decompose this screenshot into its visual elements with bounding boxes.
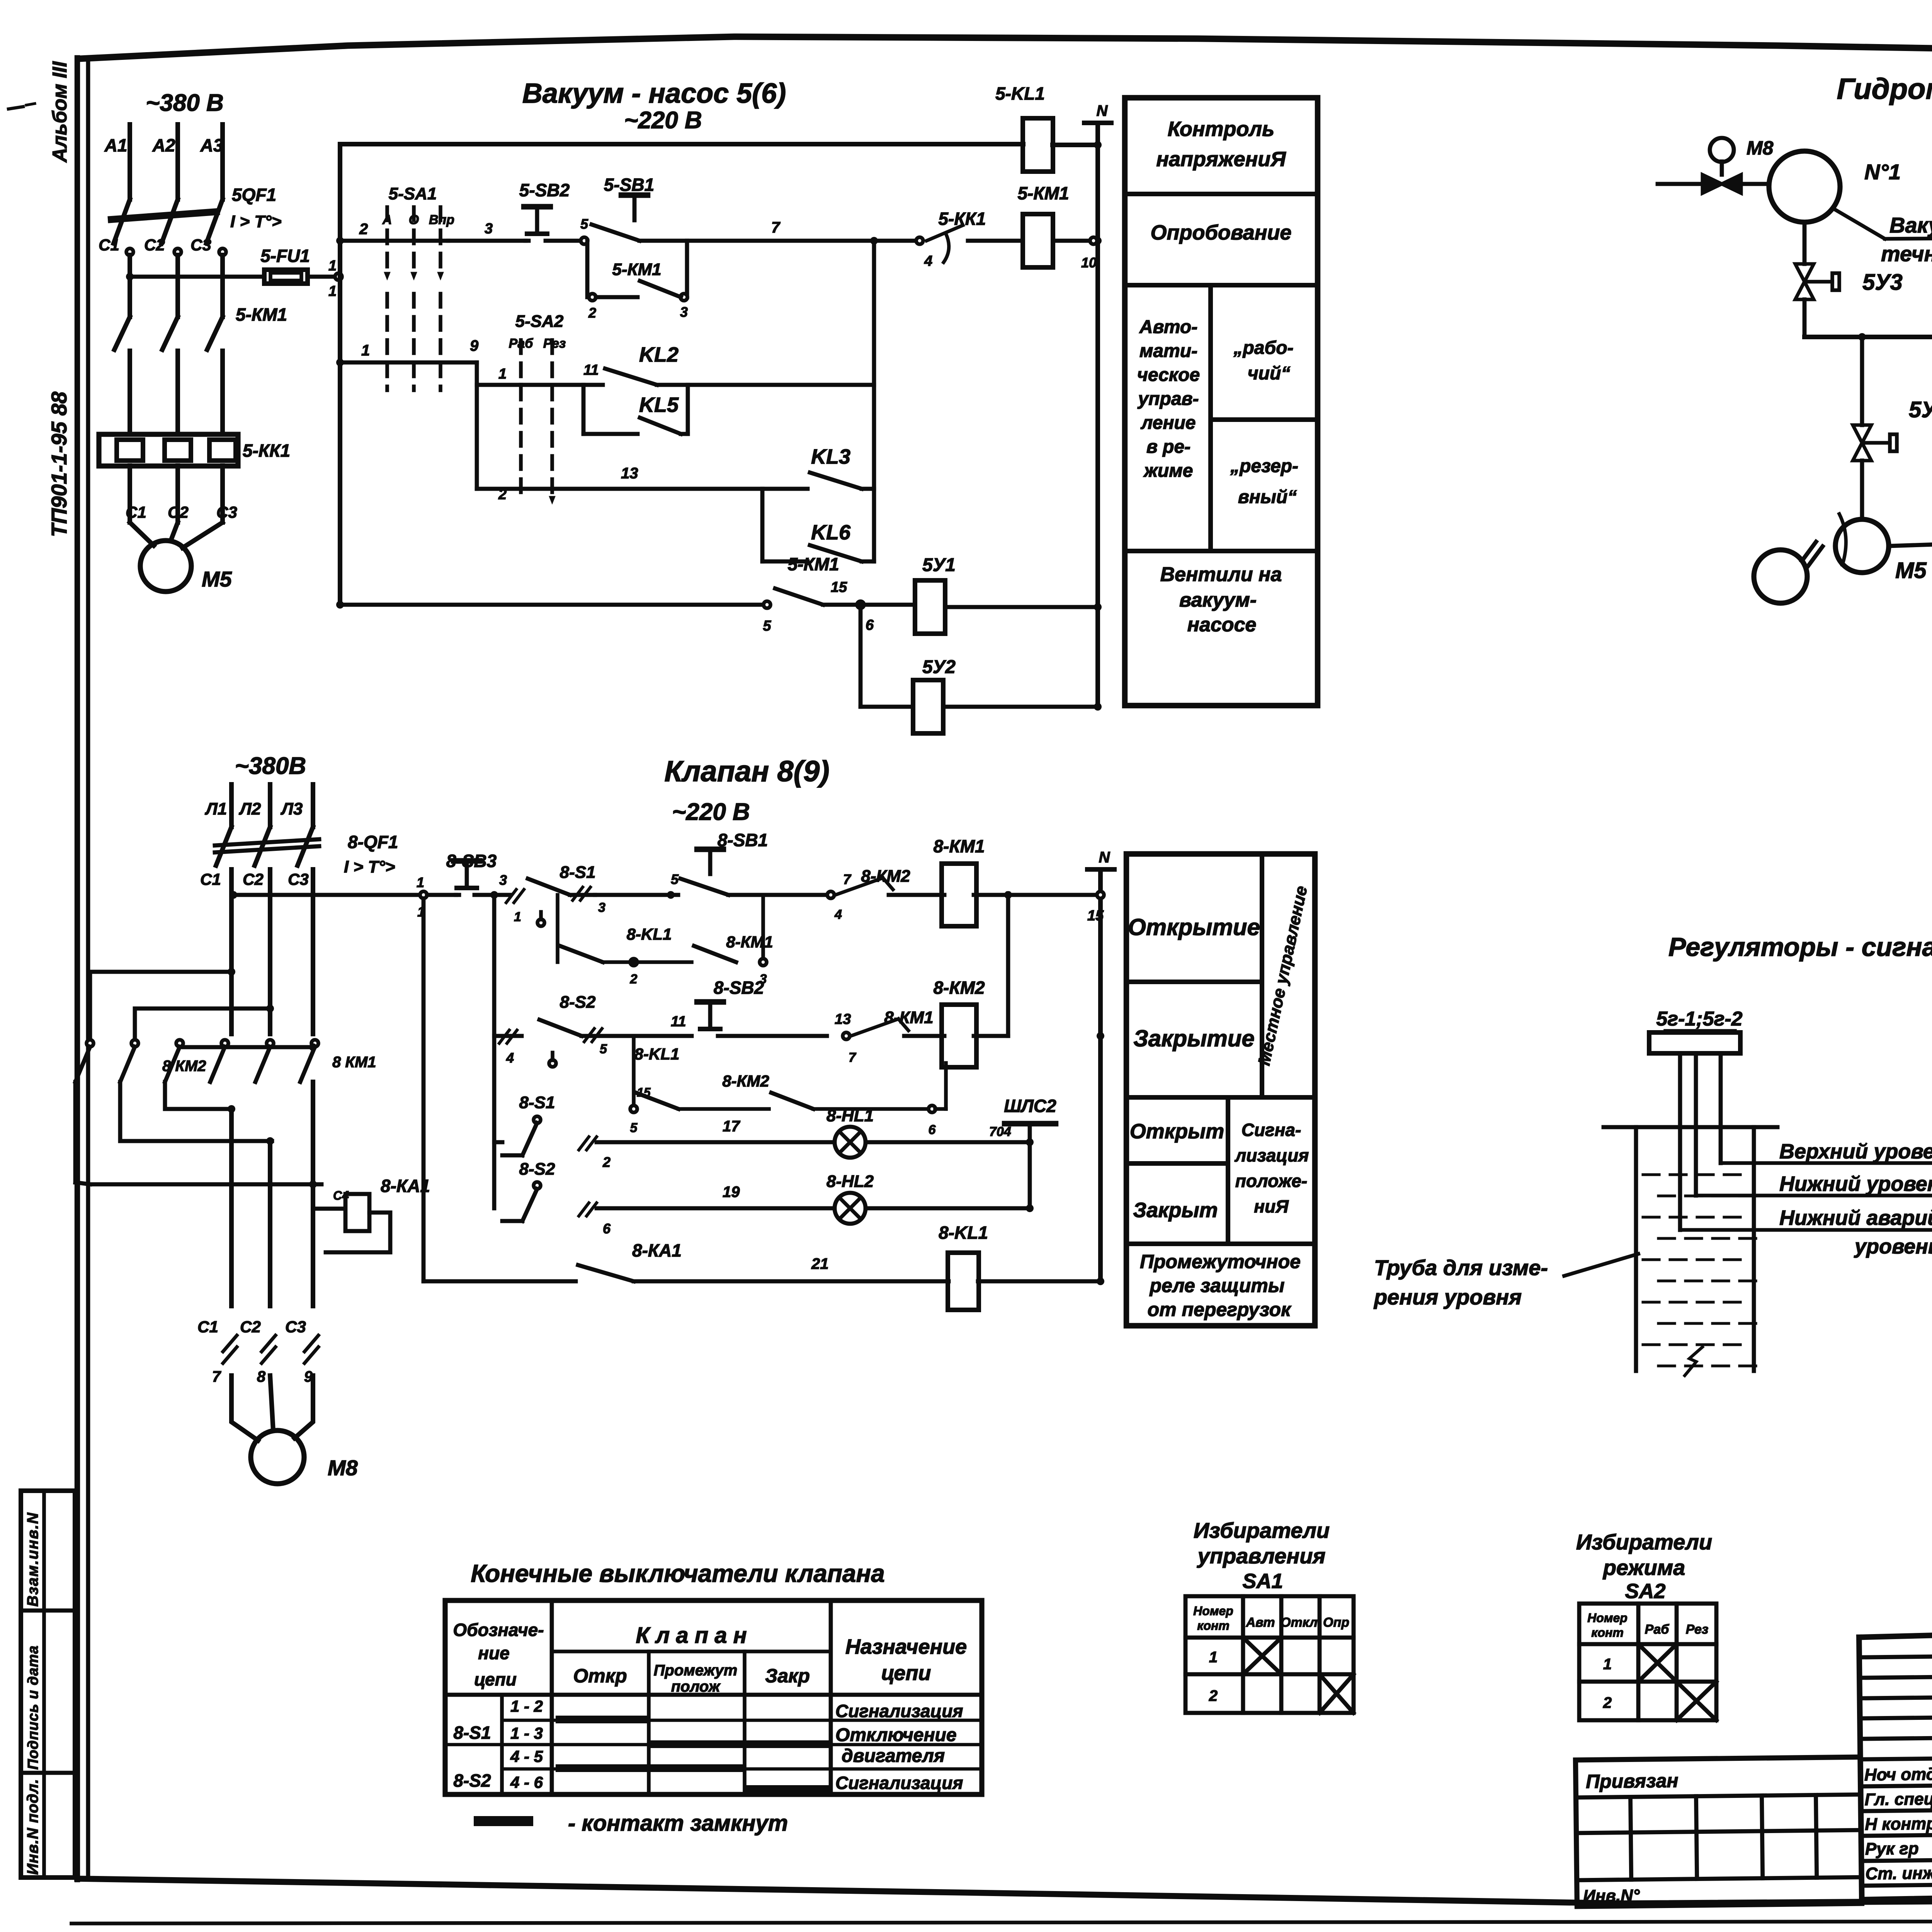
svg-text:О: О: [409, 213, 419, 227]
svg-text:4: 4: [834, 907, 842, 922]
svg-text:Номер: Номер: [1587, 1611, 1628, 1625]
svg-text:Взам.инв.N: Взам.инв.N: [24, 1512, 41, 1607]
svg-text:2: 2: [588, 305, 596, 321]
svg-text:К л а п а н: К л а п а н: [636, 1623, 747, 1648]
svg-text:1: 1: [328, 283, 337, 299]
svg-text:двигателя: двигателя: [842, 1746, 945, 1766]
svg-text:2: 2: [498, 486, 507, 503]
svg-text:C3: C3: [190, 236, 211, 254]
svg-text:ниЯ: ниЯ: [1254, 1196, 1289, 1216]
svg-text:течно сифонных линий: течно сифонных линий: [1881, 241, 1932, 266]
svg-text:5-КМ1: 5-КМ1: [1017, 183, 1069, 203]
svg-text:19: 19: [723, 1184, 740, 1201]
svg-text:М5: М5: [202, 567, 232, 591]
svg-text:8-КА1: 8-КА1: [632, 1240, 682, 1260]
svg-text:5У2: 5У2: [1909, 397, 1932, 422]
svg-text:C2: C2: [144, 236, 165, 254]
svg-text:реле защиты: реле защиты: [1149, 1275, 1285, 1296]
svg-text:704: 704: [989, 1124, 1011, 1139]
svg-text:7: 7: [849, 1050, 857, 1065]
svg-text:Рук гр: Рук гр: [1865, 1839, 1919, 1859]
svg-text:5QF1: 5QF1: [232, 185, 276, 205]
svg-text:8-KL1: 8-KL1: [634, 1045, 680, 1063]
svg-text:чий“: чий“: [1248, 363, 1291, 384]
svg-text:KL3: KL3: [811, 445, 850, 468]
svg-text:Закрыт: Закрыт: [1133, 1199, 1218, 1222]
svg-text:13: 13: [621, 465, 638, 482]
svg-text:~220 В: ~220 В: [672, 799, 750, 825]
svg-text:Нижний уровень: Нижний уровень: [1779, 1172, 1932, 1196]
svg-text:Раб: Раб: [509, 336, 534, 351]
svg-text:А3: А3: [200, 135, 223, 155]
svg-text:15: 15: [637, 1085, 651, 1099]
svg-text:8-S1: 8-S1: [453, 1723, 491, 1743]
svg-text:Откр: Откр: [573, 1665, 627, 1687]
svg-text:8-HL2: 8-HL2: [827, 1172, 874, 1191]
svg-text:11: 11: [671, 1014, 686, 1030]
svg-text:4: 4: [924, 253, 932, 269]
svg-text:Л1: Л1: [205, 799, 227, 818]
svg-text:8-HL1: 8-HL1: [827, 1106, 874, 1125]
svg-text:5-КК1: 5-КК1: [938, 209, 986, 229]
svg-text:10: 10: [1081, 255, 1097, 270]
svg-text:Гл. спец: Гл. спец: [1864, 1789, 1932, 1809]
svg-text:2: 2: [630, 972, 638, 986]
svg-text:полож: полож: [671, 1678, 721, 1695]
svg-text:лизация: лизация: [1235, 1145, 1309, 1165]
svg-text:5У3: 5У3: [1862, 270, 1903, 295]
svg-text:C2: C2: [240, 1318, 261, 1336]
svg-text:насосе: насосе: [1187, 614, 1257, 636]
svg-text:в ре-: в ре-: [1146, 437, 1190, 457]
svg-text:Открытие: Открытие: [1128, 914, 1260, 940]
svg-text:М8: М8: [328, 1456, 358, 1480]
svg-text:11: 11: [583, 362, 599, 378]
svg-text:Верхний уровень: Верхний уровень: [1779, 1140, 1932, 1163]
svg-text:Альбом III: Альбом III: [49, 61, 71, 163]
svg-text:ческое: ческое: [1137, 365, 1200, 385]
svg-text:конт: конт: [1197, 1619, 1230, 1633]
svg-text:ление: ление: [1141, 413, 1196, 433]
svg-text:5-SB1: 5-SB1: [604, 175, 654, 195]
svg-text:Откл: Откл: [1281, 1615, 1318, 1630]
svg-text:3: 3: [598, 900, 605, 915]
svg-text:5-SA1: 5-SA1: [389, 184, 437, 203]
svg-text:Отключение: Отключение: [835, 1725, 957, 1745]
svg-text:8-КМ2: 8-КМ2: [861, 867, 910, 886]
svg-text:Промежуточное: Промежуточное: [1140, 1251, 1301, 1272]
svg-text:„рабо-: „рабо-: [1233, 338, 1293, 358]
svg-text:Ст. инж: Ст. инж: [1865, 1864, 1932, 1883]
svg-text:~380В: ~380В: [235, 753, 306, 779]
svg-text:А1: А1: [104, 135, 128, 155]
svg-text:5: 5: [671, 871, 679, 887]
svg-text:Избиратели: Избиратели: [1194, 1518, 1330, 1543]
svg-text:цепи: цепи: [474, 1669, 517, 1689]
svg-text:8: 8: [257, 1368, 266, 1385]
svg-text:М5: М5: [1895, 558, 1927, 583]
svg-text:ние: ние: [478, 1643, 509, 1663]
svg-text:Рез: Рез: [543, 336, 566, 351]
svg-text:8 КМ1: 8 КМ1: [332, 1054, 376, 1071]
svg-text:Сигнализация: Сигнализация: [835, 1701, 963, 1721]
svg-text:Труба для изме-: Труба для изме-: [1374, 1255, 1548, 1280]
svg-text:5: 5: [600, 1042, 607, 1056]
svg-text:Авт: Авт: [1246, 1615, 1275, 1630]
svg-text:5: 5: [763, 618, 771, 634]
svg-text:Раб: Раб: [1645, 1622, 1670, 1637]
svg-text:Л3: Л3: [281, 799, 303, 818]
svg-text:9: 9: [470, 337, 479, 354]
svg-text:ШЛС2: ШЛС2: [1004, 1096, 1056, 1116]
svg-text:17: 17: [723, 1118, 740, 1135]
svg-text:1 - 2: 1 - 2: [510, 1697, 543, 1715]
svg-text:Опр: Опр: [1323, 1615, 1349, 1630]
svg-text:~220 В: ~220 В: [624, 107, 702, 134]
svg-text:C3: C3: [285, 1318, 306, 1336]
svg-text:8-S2: 8-S2: [519, 1160, 555, 1179]
svg-text:15: 15: [831, 579, 847, 595]
svg-text:8 КМ2: 8 КМ2: [162, 1058, 206, 1075]
svg-text:~380 В: ~380 В: [146, 90, 224, 116]
svg-text:Закрытие: Закрытие: [1133, 1026, 1255, 1051]
svg-text:3: 3: [680, 304, 688, 320]
svg-text:21: 21: [811, 1255, 829, 1272]
svg-text:Избиратели: Избиратели: [1576, 1530, 1712, 1554]
svg-text:5г-1;5г-2: 5г-1;5г-2: [1656, 1008, 1742, 1030]
svg-text:Обозначе-: Обозначе-: [453, 1620, 544, 1640]
svg-text:Инв.N°: Инв.N°: [1583, 1886, 1640, 1906]
svg-text:Назначение: Назначение: [845, 1635, 967, 1658]
svg-text:1: 1: [1209, 1649, 1218, 1666]
svg-text:Вакуум - насос 5(6): Вакуум - насос 5(6): [522, 78, 786, 109]
svg-text:управления: управления: [1197, 1544, 1326, 1568]
svg-text:C2: C2: [243, 870, 264, 888]
svg-text:Подпись и дата: Подпись и дата: [25, 1645, 41, 1770]
svg-text:SA1: SA1: [1242, 1570, 1283, 1593]
svg-text:5У2: 5У2: [922, 657, 956, 677]
svg-text:8-КМ1: 8-КМ1: [884, 1008, 933, 1027]
svg-text:N: N: [1097, 102, 1108, 119]
svg-text:1: 1: [1603, 1656, 1612, 1673]
svg-text:SA2: SA2: [1625, 1580, 1665, 1603]
svg-text:Контроль: Контроль: [1168, 117, 1274, 141]
svg-text:мати-: мати-: [1139, 341, 1197, 361]
svg-text:13: 13: [835, 1011, 851, 1027]
svg-text:2: 2: [1603, 1694, 1612, 1711]
svg-text:4 - 6: 4 - 6: [510, 1773, 543, 1791]
svg-text:Клапан 8(9): Клапан 8(9): [664, 755, 829, 788]
svg-text:Закр: Закр: [765, 1665, 810, 1687]
svg-text:I > T°>: I > T°>: [344, 857, 395, 876]
svg-text:жиме: жиме: [1143, 461, 1193, 481]
svg-text:6: 6: [603, 1221, 611, 1236]
svg-text:C4: C4: [333, 1189, 349, 1202]
svg-text:напряжениЯ: напряжениЯ: [1156, 148, 1286, 171]
svg-text:Рез: Рез: [1686, 1622, 1709, 1637]
svg-text:Привязан: Привязан: [1586, 1770, 1679, 1793]
svg-text:1 - 3: 1 - 3: [510, 1724, 543, 1742]
svg-text:„резер-: „резер-: [1230, 456, 1298, 476]
svg-text:8-КМ1: 8-КМ1: [726, 933, 773, 951]
svg-text:Вентили на: Вентили на: [1160, 563, 1282, 586]
svg-text:Ноч отд: Ноч отд: [1864, 1765, 1932, 1784]
svg-text:2: 2: [602, 1154, 611, 1170]
svg-text:8-КМ1: 8-КМ1: [933, 836, 985, 856]
svg-text:уровень: уровень: [1854, 1235, 1932, 1258]
svg-text:C1: C1: [200, 870, 221, 888]
svg-text:ТП901-1-95 88: ТП901-1-95 88: [47, 391, 71, 537]
svg-text:N: N: [1099, 849, 1111, 866]
svg-text:8-КМ2: 8-КМ2: [933, 978, 985, 998]
svg-text:5У1: 5У1: [922, 555, 956, 575]
svg-text:Впр: Впр: [429, 213, 454, 227]
svg-text:8-S2: 8-S2: [453, 1770, 491, 1791]
svg-text:8-KL1: 8-KL1: [627, 925, 672, 943]
svg-text:5-КМ1: 5-КМ1: [236, 304, 287, 325]
svg-text:конт: конт: [1591, 1626, 1624, 1639]
svg-text:Инв.N подл.: Инв.N подл.: [24, 1779, 41, 1875]
svg-text:5-КМ1: 5-КМ1: [787, 554, 839, 574]
svg-text:Авто-: Авто-: [1139, 317, 1197, 337]
svg-text:Сигна-: Сигна-: [1242, 1120, 1301, 1140]
svg-text:3: 3: [485, 221, 493, 237]
svg-text:5-KL1: 5-KL1: [995, 83, 1045, 104]
svg-text:от перегрузок: от перегрузок: [1148, 1299, 1292, 1320]
svg-text:1: 1: [417, 874, 424, 890]
svg-text:режима: режима: [1602, 1555, 1685, 1580]
svg-text:М8: М8: [1747, 137, 1774, 159]
svg-text:C2: C2: [168, 503, 189, 521]
svg-text:8-SB2: 8-SB2: [714, 978, 764, 998]
svg-text:Промежут: Промежут: [654, 1662, 738, 1679]
svg-text:7: 7: [843, 871, 852, 887]
svg-text:5: 5: [580, 216, 588, 232]
svg-text:3: 3: [499, 872, 507, 888]
svg-text:Опробование: Опробование: [1151, 221, 1292, 244]
svg-text:8-S1: 8-S1: [519, 1093, 555, 1112]
svg-text:2: 2: [1209, 1687, 1218, 1704]
svg-text:рения уровня: рения уровня: [1373, 1285, 1522, 1309]
svg-text:KL6: KL6: [811, 521, 851, 544]
svg-text:вакуум-: вакуум-: [1179, 589, 1257, 611]
svg-text:Сигнализация: Сигнализация: [835, 1773, 963, 1793]
svg-text:Конечные выключатели клапана: Конечные выключатели клапана: [471, 1560, 885, 1587]
svg-text:Номер: Номер: [1193, 1604, 1233, 1618]
svg-text:5-FU1: 5-FU1: [260, 246, 310, 266]
svg-text:8-SB3: 8-SB3: [446, 851, 497, 871]
svg-text:KL2: KL2: [639, 343, 679, 366]
svg-text:положе-: положе-: [1235, 1171, 1307, 1191]
svg-text:6: 6: [866, 617, 874, 633]
svg-text:1: 1: [361, 342, 370, 359]
svg-text:5-SA2: 5-SA2: [515, 312, 564, 331]
svg-text:5: 5: [630, 1121, 638, 1135]
svg-text:цепи: цепи: [881, 1662, 931, 1685]
svg-text:8-S2: 8-S2: [560, 993, 596, 1012]
svg-text:1: 1: [514, 910, 521, 924]
svg-text:2: 2: [359, 221, 368, 238]
svg-text:Л2: Л2: [239, 799, 261, 818]
svg-text:C3: C3: [288, 870, 309, 888]
svg-text:N°1: N°1: [1864, 160, 1901, 184]
svg-text:C1: C1: [99, 236, 119, 254]
svg-text:I > T°>: I > T°>: [230, 212, 282, 231]
svg-text:вный“: вный“: [1238, 487, 1297, 507]
svg-text:8-KL1: 8-KL1: [939, 1223, 988, 1243]
svg-text:Нижний аварийный: Нижний аварийный: [1779, 1206, 1932, 1230]
svg-text:- контакт замкнут: - контакт замкнут: [568, 1811, 788, 1836]
svg-text:5-КК1: 5-КК1: [243, 440, 290, 461]
svg-text:8-QF1: 8-QF1: [348, 832, 398, 852]
svg-text:C1: C1: [126, 503, 146, 521]
svg-text:7: 7: [771, 219, 781, 236]
svg-text:C3: C3: [216, 503, 237, 521]
svg-text:7: 7: [212, 1368, 221, 1385]
svg-text:А2: А2: [152, 135, 175, 155]
svg-text:8-КМ2: 8-КМ2: [722, 1072, 769, 1090]
svg-text:Регуляторы - сигнализаторы ур: Регуляторы - сигнализаторы уровня: [1668, 932, 1932, 962]
svg-text:5-КМ1: 5-КМ1: [612, 260, 661, 279]
svg-text:1: 1: [498, 366, 507, 382]
svg-text:1: 1: [328, 258, 337, 274]
svg-text:5-SB2: 5-SB2: [519, 180, 570, 200]
svg-text:6: 6: [929, 1122, 936, 1137]
svg-text:управ-: управ-: [1137, 389, 1199, 409]
svg-text:Гидромеханическая схема: Гидромеханическая схема: [1837, 73, 1932, 105]
svg-text:4: 4: [506, 1050, 514, 1066]
svg-text:KL5: KL5: [639, 393, 679, 417]
svg-text:Открыт: Открыт: [1130, 1120, 1225, 1143]
svg-text:8-S1: 8-S1: [560, 863, 596, 882]
svg-text:Вакуум-кслонны само-: Вакуум-кслонны само-: [1889, 213, 1932, 237]
svg-text:Н контр: Н контр: [1865, 1814, 1932, 1834]
svg-text:C1: C1: [197, 1318, 218, 1336]
svg-text:А: А: [382, 213, 392, 227]
svg-text:4 - 5: 4 - 5: [510, 1747, 543, 1765]
svg-text:8-SB1: 8-SB1: [718, 830, 768, 850]
